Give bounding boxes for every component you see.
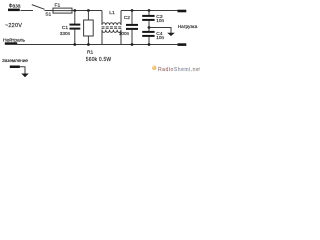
svg-text:RadioShemi.net: RadioShemi.net (158, 67, 200, 73)
capacitor C2 top wire (131, 11, 133, 25)
capacitor C2 plates (126, 24, 138, 26)
svg-text:Заземление: Заземление (2, 58, 28, 63)
svg-text:10n: 10n (156, 18, 164, 23)
svg-text:C2: C2 (124, 15, 131, 21)
wire bottom rail (17, 44, 178, 46)
earth arrow left (21, 74, 28, 78)
wire switch to fuse (45, 10, 54, 12)
switch S1 blade (32, 5, 45, 10)
wire ground terminal to earth arrow (20, 67, 26, 74)
svg-text:560k 0.5W: 560k 0.5W (86, 57, 112, 63)
wire phase terminal to switch (21, 10, 34, 12)
resistor R1 top wire (87, 11, 89, 21)
capacitor C2 bottom wire (131, 30, 133, 45)
capacitor C3 bottom wire (148, 21, 150, 28)
svg-text:R1: R1 (87, 49, 94, 55)
choke L1 right top jog wire (120, 11, 122, 26)
terminal bar Фаза (8, 9, 20, 12)
capacitor C1 top wire (74, 11, 76, 25)
terminal bar Нейтраль (5, 42, 17, 45)
choke L1 left top jog wire (101, 11, 103, 26)
svg-text:330n: 330n (60, 31, 71, 36)
wire top rail fuse to choke (72, 10, 102, 12)
capacitor C1 plates (70, 24, 81, 26)
node dot C3 C4 midpoint (148, 26, 151, 29)
svg-text:Нагрузка: Нагрузка (178, 24, 198, 29)
fuse F1 body (53, 8, 72, 13)
svg-text:F1: F1 (55, 2, 61, 8)
node dot C2 bottom (131, 43, 134, 46)
wire through fuse (53, 10, 72, 12)
choke L1 core lines (102, 26, 122, 28)
terminal bar Заземление (10, 66, 20, 69)
node dot R1 top (87, 9, 90, 12)
choke L1 left bottom jog wire (101, 30, 103, 45)
svg-text:Фаза: Фаза (9, 3, 21, 9)
node dot C4 bottom (148, 43, 151, 46)
terminal bar output bottom (178, 43, 187, 46)
capacitor C4 plates (142, 31, 154, 33)
svg-text:100n: 100n (119, 31, 130, 36)
node dot C1 top (73, 9, 76, 12)
terminal bar output top (178, 10, 187, 13)
wire top rail choke to output terminal (121, 10, 178, 12)
choke L1 top winding (102, 23, 121, 25)
svg-text:S1: S1 (45, 11, 51, 17)
choke L1 right bottom jog wire (120, 30, 122, 45)
background (0, 0, 200, 80)
earth arrow right (167, 33, 175, 36)
node dot C2 top (131, 9, 134, 12)
capacitor C3 plates (142, 15, 154, 17)
wire midpoint to earth arrow (149, 28, 171, 34)
resistor R1 body (84, 20, 94, 36)
node dot C1 bottom (73, 43, 76, 46)
watermark icon (152, 66, 156, 70)
capacitor C4 top wire (148, 28, 150, 32)
node dot R1 bottom (87, 43, 90, 46)
choke L1 bottom winding (102, 30, 121, 33)
svg-text:L1: L1 (109, 10, 115, 16)
svg-text:C1: C1 (62, 25, 69, 31)
capacitor C1 bottom wire (74, 30, 76, 45)
capacitor C3 top wire (148, 11, 150, 16)
capacitor C4 bottom wire (148, 37, 150, 45)
node dot C3 top (148, 9, 151, 12)
svg-text:10n: 10n (156, 35, 164, 40)
svg-text:~220V: ~220V (5, 23, 22, 29)
resistor R1 bottom wire (87, 36, 89, 45)
